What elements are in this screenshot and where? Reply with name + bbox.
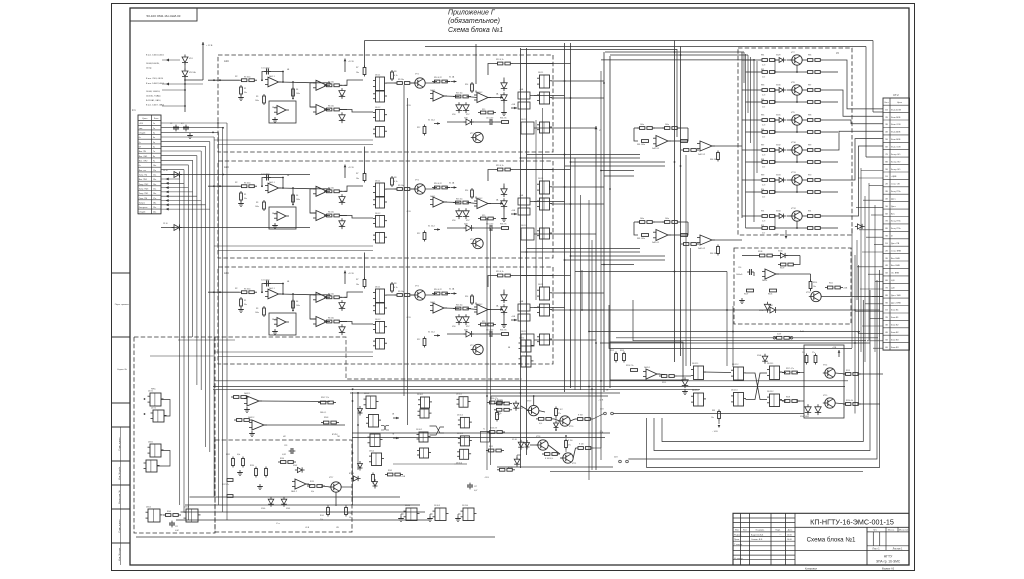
svg-text:-12 В: -12 В: [406, 317, 411, 319]
svg-text:DA 1.2: DA 1.2: [272, 212, 277, 215]
svg-text:VD44: VD44: [757, 355, 761, 357]
svg-text:Вкл.: Вкл.: [891, 213, 895, 215]
svg-text:Запр. ПЧ: Запр. ПЧ: [139, 175, 148, 177]
svg-text:2,7к: 2,7к: [762, 107, 765, 109]
svg-text:Общий: Общий: [139, 132, 146, 135]
svg-text:DA11.2: DA11.2: [291, 490, 297, 493]
svg-text:Блок В2: Блок В2: [891, 332, 899, 334]
svg-text:Конц. ППч: Конц. ППч: [891, 191, 901, 193]
svg-text:R 140: R 140: [579, 444, 584, 446]
svg-text:0,47: 0,47: [474, 490, 477, 492]
svg-text:14Оф: 14Оф: [146, 67, 152, 70]
svg-text:R83: R83: [761, 85, 764, 87]
svg-text:R109: R109: [780, 268, 784, 270]
svg-text:Датч.: Датч.: [891, 206, 896, 208]
svg-text:VD7: VD7: [466, 114, 470, 116]
svg-text:6,8к: 6,8к: [237, 454, 240, 456]
svg-text:VD4: VD4: [340, 120, 344, 122]
svg-text:Контр. ВО: Контр. ВО: [891, 154, 901, 156]
svg-text:DA11.1: DA11.1: [644, 366, 650, 369]
svg-text:-12 В: -12 В: [406, 105, 411, 107]
svg-text:DD13.2: DD13.2: [767, 391, 773, 393]
svg-text:DD2.2: DD2.2: [521, 331, 526, 333]
svg-text:R13 10к: R13 10к: [456, 199, 463, 201]
svg-text:27к: 27к: [499, 413, 502, 415]
svg-text:R36 27к: R36 27к: [500, 224, 507, 226]
svg-text:4,7к: 4,7к: [539, 423, 542, 425]
svg-text:R7: R7: [356, 67, 358, 69]
svg-text:Датч.: Датч.: [891, 198, 896, 200]
svg-text:Конт: Конт: [884, 102, 888, 104]
svg-text:VD62: VD62: [293, 465, 297, 467]
svg-text:DD12.1: DD12.1: [692, 363, 698, 365]
svg-text:Блок В3: Блок В3: [891, 347, 899, 349]
svg-text:10.06: 10.06: [787, 535, 792, 537]
svg-text:-ПВ: -ПВ: [336, 527, 339, 529]
svg-text:100к: 100к: [640, 124, 644, 126]
svg-text:№ докум.: № докум.: [756, 529, 765, 532]
svg-text:DA3.2: DA3.2: [477, 303, 482, 306]
svg-text:R14: R14: [465, 296, 468, 298]
svg-text:R117 4,7к: R117 4,7к: [786, 368, 794, 370]
svg-text:27к: 27к: [568, 445, 571, 447]
svg-text:100к: 100к: [665, 218, 669, 220]
svg-text:Блок В1: Блок В1: [891, 310, 899, 312]
svg-text:DD2.2: DD2.2: [521, 225, 526, 227]
svg-text:R15: R15: [482, 321, 485, 323]
svg-text:R3: R3: [256, 308, 258, 310]
svg-text:R10 0,22: R10 0,22: [434, 289, 442, 291]
svg-text:2,7к: 2,7к: [762, 167, 765, 169]
svg-text:Вкл. ПЧ: Вкл. ПЧ: [139, 151, 147, 153]
svg-text:R150 4,7к: R150 4,7к: [490, 398, 498, 400]
svg-text:Х1 10,4: Х1 10,4: [428, 120, 435, 122]
svg-text:R36 27к: R36 27к: [500, 330, 507, 332]
svg-text:DD1.2: DD1.2: [375, 107, 380, 109]
svg-text:R87: R87: [761, 145, 764, 147]
svg-text:R155: R155: [489, 446, 493, 448]
svg-text:Конц. ППч: Конц. ППч: [891, 228, 901, 230]
svg-text:10к: 10к: [356, 72, 359, 74]
svg-text:Фаза ВОВ: Фаза ВОВ: [891, 116, 901, 119]
svg-text:VT20: VT20: [569, 426, 573, 428]
svg-text:VD30: VD30: [776, 85, 781, 87]
svg-text:Запр. ПЧ3: Запр. ПЧ3: [139, 188, 149, 190]
svg-text:НГТУ: НГТУ: [884, 555, 893, 559]
svg-text:Цепь: Цепь: [897, 102, 903, 104]
svg-text:Стаб. ВНВ: Стаб. ВНВ: [891, 250, 901, 252]
svg-text:2,7к: 2,7к: [762, 185, 765, 187]
svg-text:VT21: VT21: [572, 463, 576, 465]
svg-text:2,7к: 2,7к: [762, 77, 765, 79]
svg-text:2,7к: 2,7к: [762, 95, 765, 97]
svg-text:DD10.3: DD10.3: [434, 505, 440, 507]
svg-text:2,7к: 2,7к: [762, 125, 765, 127]
svg-text:VD33: VD33: [776, 175, 781, 177]
svg-text:DA 13.2: DA 13.2: [698, 153, 706, 156]
svg-text:Х1 10,4: Х1 10,4: [428, 226, 435, 228]
svg-text:R66 180к: R66 180к: [710, 159, 718, 161]
svg-text:Фаза ВОВ: Фаза ВОВ: [891, 138, 901, 141]
svg-text:Фаза СОВ: Фаза СОВ: [891, 123, 901, 126]
svg-text:R15: R15: [482, 109, 485, 111]
svg-text:R149: R149: [388, 470, 392, 472]
svg-text:R148: R148: [324, 417, 328, 419]
svg-text:Контр. ВО: Контр. ВО: [891, 169, 901, 171]
svg-text:VD6: VD6: [452, 114, 456, 116]
svg-text:R4: R4: [296, 301, 298, 303]
svg-text:Запр. ПЧ1: Запр. ПЧ1: [139, 193, 149, 195]
svg-text:ЭПА-гр. 16-ЭМС: ЭПА-гр. 16-ЭМС: [876, 560, 901, 564]
svg-text:VT16: VT16: [806, 292, 810, 294]
svg-text:Вкл. ВНВ: Вкл. ВНВ: [891, 265, 900, 267]
svg-text:-П тк: -П тк: [276, 523, 280, 525]
svg-text:VD7: VD7: [466, 326, 470, 328]
svg-text:VT2: VT2: [470, 345, 473, 347]
svg-text:Общий: Общий: [139, 211, 146, 214]
svg-text:14008, 14001Ч,: 14008, 14001Ч,: [146, 91, 161, 93]
svg-text:DD12.3: DD12.3: [731, 390, 737, 392]
svg-text:DA 14.1: DA 14.1: [652, 241, 660, 244]
svg-text:VD8: VD8: [464, 330, 468, 332]
svg-text:Приложение Г: Приложение Г: [448, 10, 496, 17]
svg-text:R12: R12: [417, 233, 420, 235]
svg-text:DA 14.2: DA 14.2: [698, 247, 706, 250]
svg-text:0т: 0т: [139, 165, 141, 167]
svg-text:Х1 2А: Х1 2А: [449, 288, 455, 291]
svg-text:R61 100к: R61 100к: [637, 144, 645, 146]
svg-text:Фаза АОВ: Фаза АОВ: [891, 131, 901, 134]
svg-text:А1С: А1С: [224, 59, 229, 63]
svg-text:DD2.1: DD2.1: [538, 72, 543, 74]
svg-text:R4: R4: [296, 89, 298, 91]
svg-text:R9 10к: R9 10к: [398, 185, 404, 187]
svg-text:+12В: +12В: [774, 234, 779, 236]
svg-text:В исп. 7001, 0Ю14: В исп. 7001, 0Ю14: [146, 78, 164, 80]
svg-text:R9 10к: R9 10к: [398, 291, 404, 293]
svg-text:Датч. ЗНВ: Датч. ЗНВ: [891, 295, 901, 297]
svg-text:R153 27к: R153 27к: [490, 428, 497, 430]
svg-text:DA 16: DA 16: [762, 279, 767, 282]
svg-text:DA12.1: DA12.1: [244, 392, 250, 395]
svg-text:Схема блока №1: Схема блока №1: [448, 26, 503, 34]
svg-text:4,7к: 4,7к: [394, 75, 398, 77]
svg-text:VD8: VD8: [464, 224, 468, 226]
svg-text:Масса: Масса: [888, 530, 895, 532]
svg-text:DD9.2: DD9.2: [519, 338, 524, 340]
svg-text:R139: R139: [310, 481, 314, 483]
svg-text:VD3: VD3: [340, 95, 344, 97]
svg-text:Т. контр.: Т. контр.: [734, 544, 743, 546]
svg-text:0,022: 0,022: [282, 454, 286, 456]
svg-text:Перв. примен.: Перв. примен.: [115, 304, 130, 306]
svg-text:VD32: VD32: [776, 145, 781, 147]
svg-text:14001Ч, 7ОАЧ(): 14001Ч, 7ОАЧ(): [146, 95, 161, 98]
svg-text:100к: 100к: [255, 312, 259, 314]
svg-text:D86 0,1: D86 0,1: [320, 412, 326, 414]
svg-text:DA3.1: DA3.1: [430, 89, 435, 92]
svg-text:VD41: VD41: [778, 251, 783, 253]
svg-text:27к: 27к: [558, 413, 561, 415]
svg-text:R 107: R 107: [558, 409, 563, 411]
svg-text:А3С: А3С: [224, 271, 229, 275]
svg-text:Андреев А.А.: Андреев А.А.: [751, 534, 764, 537]
svg-text:Листов 1: Листов 1: [893, 548, 903, 551]
svg-text:5т: 5т: [139, 142, 141, 144]
svg-text:Формат А3: Формат А3: [882, 567, 895, 570]
svg-text:С6 0,022: С6 0,022: [486, 118, 493, 120]
svg-text:R87: R87: [808, 85, 811, 87]
svg-text:R2: R2: [235, 76, 237, 78]
svg-text:R 108 4,7к: R 108 4,7к: [545, 458, 553, 460]
svg-text:2,7к: 2,7к: [762, 197, 765, 199]
svg-text:У3.10: У3.10: [163, 170, 168, 172]
svg-text:Запр. ПЧ2: Запр. ПЧ2: [139, 184, 149, 186]
svg-text:Цепь: Цепь: [142, 118, 148, 120]
svg-text:R3 100к: R3 100к: [244, 77, 251, 79]
svg-text:14008,14001Ч,: 14008,14001Ч,: [146, 63, 160, 65]
svg-text:VT15: VT15: [823, 395, 827, 397]
svg-text:R86: R86: [761, 129, 764, 131]
svg-text:– 14 В: – 14 В: [712, 431, 718, 433]
svg-text:-12 В: -12 В: [406, 211, 411, 213]
svg-text:R66 180к: R66 180к: [710, 253, 718, 255]
svg-text:R1: R1: [244, 300, 246, 302]
svg-text:Блок В2: Блок В2: [891, 325, 899, 327]
svg-text:27к: 27к: [812, 352, 815, 354]
svg-text:100к: 100к: [296, 305, 300, 307]
svg-text:R90: R90: [808, 175, 811, 177]
svg-text:DA3.2: DA3.2: [477, 91, 482, 94]
svg-text:DA3.1: DA3.1: [430, 301, 435, 304]
svg-text:+12 В: +12 В: [348, 273, 354, 275]
svg-text:КП-НГТУ-16-ЭМС-001-15: КП-НГТУ-16-ЭМС-001-15: [810, 518, 894, 527]
svg-text:VD34: VD34: [768, 305, 773, 307]
svg-text:10к: 10к: [356, 178, 359, 180]
svg-text:Откл. ПЧ: Откл. ПЧ: [139, 198, 148, 200]
svg-text:0,1: 0,1: [181, 123, 184, 125]
svg-text:R2: R2: [235, 288, 237, 290]
svg-text:97к: 97к: [349, 517, 352, 519]
svg-text:Пров.: Пров.: [734, 539, 740, 541]
svg-text:Схема блока №1: Схема блока №1: [807, 537, 856, 544]
svg-text:DD10.2: DD10.2: [416, 429, 422, 431]
svg-text:R82: R82: [761, 69, 764, 71]
svg-text:100к: 100к: [296, 199, 300, 201]
svg-text:R91: R91: [761, 211, 764, 213]
svg-text:Лист: Лист: [743, 530, 747, 532]
svg-text:R89: R89: [761, 175, 764, 177]
svg-text:R8: R8: [394, 177, 396, 179]
svg-text:DA3.1: DA3.1: [430, 195, 435, 198]
svg-text:DA12.2: DA12.2: [248, 416, 254, 419]
svg-text:R81: R81: [761, 55, 764, 57]
svg-text:Лист 1: Лист 1: [872, 548, 880, 551]
svg-text:R119: R119: [846, 370, 850, 372]
svg-text:2,7к: 2,7к: [762, 233, 765, 235]
svg-text:У3.10: У3.10: [163, 223, 168, 225]
svg-text:Н. контр.: Н. контр.: [734, 558, 743, 560]
svg-text:DD2.2: DD2.2: [521, 119, 526, 121]
svg-text:+ЦВВ: +ЦВВ: [891, 176, 897, 178]
svg-text:R89: R89: [808, 145, 811, 147]
svg-text:10к: 10к: [813, 286, 816, 288]
svg-text:VD3: VD3: [340, 201, 344, 203]
svg-text:R6 10к: R6 10к: [328, 318, 334, 320]
svg-text:2,7к: 2,7к: [762, 137, 765, 139]
svg-text:VD7: VD7: [466, 220, 470, 222]
svg-text:R2: R2: [235, 182, 237, 184]
svg-text:DD7.2: DD7.2: [151, 408, 156, 410]
svg-text:100к: 100к: [255, 206, 259, 208]
svg-text:VD34: VD34: [776, 211, 781, 213]
svg-text:100к: 100к: [296, 93, 300, 95]
svg-text:27к: 27к: [802, 352, 805, 354]
svg-text:VT17: VT17: [329, 477, 333, 479]
svg-text:-пит: -пит: [139, 128, 143, 130]
svg-text:R110: R110: [813, 282, 817, 284]
svg-text:Запуск: Запуск: [139, 202, 145, 204]
svg-text:Контроль: Контроль: [139, 207, 148, 209]
svg-text:R10 0,22: R10 0,22: [434, 183, 442, 185]
svg-text:VT2: VT2: [470, 133, 473, 135]
svg-text:4,7к: 4,7к: [394, 181, 398, 183]
svg-text:100к: 100к: [640, 218, 644, 220]
svg-text:R113: R113: [620, 350, 624, 352]
svg-text:С16: С16: [738, 267, 741, 269]
svg-text:VD31: VD31: [776, 115, 781, 117]
svg-text:DA 1.1: DA 1.1: [269, 181, 275, 184]
svg-text:R134: R134: [250, 465, 254, 467]
svg-text:R146: R146: [348, 513, 352, 515]
svg-text:R13 10к: R13 10к: [456, 305, 463, 307]
svg-text:VD6: VD6: [452, 326, 456, 328]
svg-text:DD5.4: DD5.4: [369, 451, 374, 453]
svg-text:R1: R1: [244, 88, 246, 90]
svg-text:DD1.1: DD1.1: [375, 181, 380, 183]
svg-text:VT2: VT2: [470, 239, 473, 241]
svg-text:R90: R90: [761, 189, 764, 191]
svg-text:30к: 30к: [244, 198, 247, 200]
svg-text:R 708: R 708: [578, 415, 583, 417]
svg-text:Х1 2А: Х1 2А: [449, 182, 455, 185]
svg-text:R3 100к: R3 100к: [244, 289, 251, 291]
svg-text:Подп.: Подп.: [775, 530, 781, 532]
svg-text:R105: R105: [768, 294, 772, 296]
svg-text:0т: 0т: [891, 236, 893, 238]
svg-text:R112: R112: [610, 350, 614, 352]
svg-text:R19 4,7к: R19 4,7к: [496, 165, 504, 167]
svg-text:R88: R88: [808, 115, 811, 117]
svg-text:R132: R132: [226, 454, 230, 456]
svg-text:Справ. №: Справ. №: [117, 368, 128, 371]
svg-text:В-13ОА1, ОА14,: В-13ОА1, ОА14,: [146, 99, 161, 102]
svg-text:Фаза СОВ: Фаза СОВ: [891, 146, 901, 149]
svg-text:VD2 4А: VD2 4А: [189, 71, 196, 74]
svg-text:Вкл. сет: Вкл. сет: [139, 170, 147, 172]
svg-text:1000пФ: 1000пФ: [736, 273, 743, 276]
svg-text:Конт: Конт: [154, 118, 159, 120]
svg-text:Вкл. ОН2: Вкл. ОН2: [139, 161, 149, 163]
svg-text:DD11.1: DD11.1: [456, 394, 462, 396]
svg-text:ТЮ: ТЮ: [337, 436, 340, 438]
svg-text:0,007: 0,007: [777, 334, 781, 336]
svg-text:Х1 10,4: Х1 10,4: [428, 332, 435, 334]
svg-text:DD11.2: DD11.2: [457, 414, 463, 416]
svg-text:4,7к: 4,7к: [394, 287, 398, 289]
svg-text:+ 12 В: + 12 В: [206, 45, 213, 47]
svg-text:10к: 10к: [356, 284, 359, 286]
svg-text:0т: 0т: [139, 137, 141, 139]
svg-text:2,7к: 2,7к: [762, 65, 765, 67]
svg-text:R83: R83: [712, 410, 715, 412]
svg-text:R114 27к: R114 27к: [626, 365, 634, 367]
svg-text:R14: R14: [465, 84, 468, 86]
svg-text:В исп. 14001,14001: В исп. 14001,14001: [146, 55, 165, 57]
svg-text:В исп. 14002,14004: В исп. 14002,14004: [146, 83, 165, 85]
svg-text:–15 В: –15 В: [484, 477, 489, 479]
svg-text:R91: R91: [808, 211, 811, 213]
svg-text:R9 10к: R9 10к: [398, 79, 404, 81]
svg-text:Контр. ВО: Контр. ВО: [891, 161, 901, 163]
svg-text:R137 47к: R137 47к: [222, 484, 229, 486]
svg-text:R6 10к: R6 10к: [328, 106, 334, 108]
svg-text:R 700: R 700: [568, 440, 573, 442]
svg-text:DD6.3: DD6.3: [184, 507, 189, 509]
svg-text:R136: R136: [280, 458, 284, 460]
svg-text:R8: R8: [394, 283, 396, 285]
svg-text:VT14: VT14: [823, 365, 827, 367]
svg-text:6,8к: 6,8к: [311, 491, 314, 493]
svg-text:R147 2,7к: R147 2,7к: [321, 397, 329, 399]
svg-text:К.1: К.1: [132, 108, 136, 112]
svg-text:R145: R145: [320, 515, 324, 517]
svg-text:R115: R115: [662, 382, 666, 384]
svg-text:Стаб. ОВ: Стаб. ОВ: [891, 184, 900, 186]
svg-text:+5 В: +5 В: [139, 123, 144, 125]
svg-text:Блок В1: Блок В1: [891, 317, 899, 319]
svg-text:R3: R3: [256, 96, 258, 98]
svg-text:R3: R3: [256, 202, 258, 204]
svg-text:Конц. ППч: Конц. ППч: [891, 221, 901, 223]
svg-text:(обязательное): (обязательное): [448, 17, 500, 25]
svg-text:0,047: 0,047: [175, 530, 179, 532]
svg-text:100к: 100к: [255, 100, 259, 102]
svg-text:DD13.4: DD13.4: [462, 505, 468, 507]
svg-text:Лит.: Лит.: [873, 530, 877, 532]
svg-text:Блок В3: Блок В3: [891, 339, 899, 341]
svg-text:Фаза А ОВ: Фаза А ОВ: [891, 108, 902, 111]
svg-text:2,7к: 2,7к: [762, 155, 765, 157]
svg-text:+12 В: +12 В: [348, 167, 354, 169]
svg-text:VD60: VD60: [261, 508, 265, 510]
svg-text:R12: R12: [417, 127, 420, 129]
svg-text:DD12.4: DD12.4: [692, 390, 698, 392]
svg-text:R88: R88: [761, 159, 764, 161]
svg-text:С2: С2: [170, 123, 172, 125]
svg-text:DA 1.2: DA 1.2: [272, 106, 277, 109]
svg-text:DD1.2: DD1.2: [375, 319, 380, 321]
svg-text:Т1: Т1: [483, 429, 485, 431]
svg-text:VD44 VD45: VD44 VD45: [800, 416, 809, 418]
svg-text:R10 0,22: R10 0,22: [434, 77, 442, 79]
svg-text:DA 1.2: DA 1.2: [272, 318, 277, 321]
svg-text:Вкл. ВНВ: Вкл. ВНВ: [891, 258, 900, 260]
svg-text:DD13.1: DD13.1: [767, 363, 773, 365]
svg-text:DA 1.1: DA 1.1: [269, 75, 275, 78]
svg-text:Датч. ПВ: Датч. ПВ: [891, 243, 900, 245]
svg-text:2,7к: 2,7к: [762, 221, 765, 223]
